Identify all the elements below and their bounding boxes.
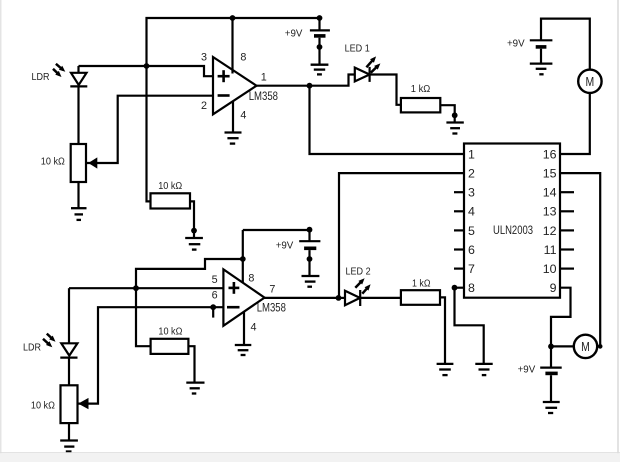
wire U2B pin8 row to battery B3 xyxy=(243,229,310,231)
wire output node to LED2 xyxy=(339,297,346,299)
U2B pin 4 wire to ground xyxy=(243,312,245,346)
svg-text:M: M xyxy=(586,75,595,89)
ground under R3 xyxy=(446,123,463,134)
wire M2 right to pin-15 line xyxy=(597,345,600,347)
svg-text:1: 1 xyxy=(468,147,475,161)
svg-text:+9V: +9V xyxy=(518,364,536,375)
LED2 emission arrows xyxy=(355,278,370,294)
ground under pin-8 wire xyxy=(475,364,492,375)
svg-text:5: 5 xyxy=(468,224,475,238)
wire node B to U2B pin 5 xyxy=(69,287,223,289)
motor M2 xyxy=(574,335,597,358)
junction M2 left node xyxy=(548,344,554,350)
battery B3 stem xyxy=(308,230,310,241)
svg-text:10 kΩ: 10 kΩ xyxy=(158,327,182,338)
wire top +9V rail to node A and down to R2 xyxy=(147,18,320,201)
battery B2 plates xyxy=(530,39,553,41)
U2 pin numbers right xyxy=(543,147,557,295)
svg-text:6: 6 xyxy=(468,243,475,257)
svg-text:8: 8 xyxy=(468,281,475,295)
svg-text:9: 9 xyxy=(550,281,557,295)
svg-text:13: 13 xyxy=(543,205,557,219)
svg-text:5: 5 xyxy=(212,274,218,286)
resistor R5 10k body xyxy=(151,339,189,354)
junction dot below B1 xyxy=(317,44,323,50)
svg-text:3: 3 xyxy=(201,52,207,64)
ground under R5 xyxy=(186,383,204,394)
svg-text:LDR: LDR xyxy=(32,72,50,83)
svg-text:1 kΩ: 1 kΩ xyxy=(411,84,431,95)
ground under U1A pin 4 xyxy=(225,133,242,144)
wire output node to LED1 (stepped) xyxy=(310,75,355,86)
svg-text:7: 7 xyxy=(468,262,475,276)
LDR1 light arrows xyxy=(53,64,65,77)
page left edge line xyxy=(0,0,2,462)
svg-text:+9V: +9V xyxy=(507,38,525,49)
LDR2 symbol xyxy=(60,343,77,357)
wire U2 pin 8 to ground (stepped) xyxy=(455,288,484,364)
junction at B3 top xyxy=(307,227,313,233)
svg-text:LDR: LDR xyxy=(23,342,41,353)
junction dot above R3 ground xyxy=(452,112,458,118)
junction at U2 pin 8 xyxy=(452,285,458,291)
svg-text:11: 11 xyxy=(544,243,557,257)
wire node to M2 xyxy=(551,345,574,347)
wire B3 row down to U2B pin 8 xyxy=(242,230,244,283)
wire R2 right to ground xyxy=(190,201,194,238)
wire LED2 cathode to R4 xyxy=(360,297,401,299)
svg-text:3: 3 xyxy=(468,186,475,200)
svg-text:15: 15 xyxy=(543,167,557,181)
LED2 symbol xyxy=(345,290,360,306)
wire B4 negative to ground xyxy=(550,375,552,402)
LDR2 light arrows xyxy=(43,334,56,348)
svg-text:7: 7 xyxy=(269,284,275,296)
svg-text:8: 8 xyxy=(248,273,254,285)
IC U2 ULN2003 body xyxy=(464,144,560,298)
ground under R2 xyxy=(185,238,203,250)
wire B3 negative to ground xyxy=(308,250,310,276)
wire U1A output to ULN2003 pin 1 xyxy=(310,86,465,154)
LDR1 symbol xyxy=(70,73,87,87)
U1A plus input mark xyxy=(218,70,230,82)
op-amp U1A LM358 body xyxy=(213,57,257,114)
wire LDR2 anode from node B row xyxy=(68,288,70,343)
svg-text:1: 1 xyxy=(261,72,267,84)
svg-text:14: 14 xyxy=(543,186,557,200)
wire R3 right to ground xyxy=(440,105,454,122)
wire M1 to ULN2003 pin 16 xyxy=(560,92,590,154)
svg-text:LM358: LM358 xyxy=(257,302,286,314)
battery B3 plates xyxy=(299,240,320,242)
U2 left pin stubs 3-8 xyxy=(454,192,464,288)
U1A minus input mark xyxy=(218,94,230,97)
U2 pin numbers left xyxy=(468,147,475,295)
U2B minus input mark xyxy=(227,306,240,309)
ground under B2 xyxy=(530,64,553,75)
junction on rail at U1A pin 8 branch xyxy=(230,15,236,21)
svg-text:8: 8 xyxy=(240,52,246,64)
battery B1 +9V stem xyxy=(318,18,320,30)
junction dot above R2 ground xyxy=(191,228,197,234)
ground under U2B pin 4 xyxy=(235,345,252,355)
U2 right pin stubs 14-10 xyxy=(560,192,574,268)
motor M1 xyxy=(578,70,601,93)
LED1 symbol xyxy=(355,67,370,82)
junction U1A output node xyxy=(307,83,313,89)
svg-text:10 kΩ: 10 kΩ xyxy=(31,401,55,412)
svg-text:4: 4 xyxy=(468,205,475,219)
wire U2B output pin 7 xyxy=(265,297,339,299)
svg-text:+9V: +9V xyxy=(285,29,303,40)
wire R4 right to ground xyxy=(440,297,445,364)
ground under R6 xyxy=(60,441,78,452)
node A junction (rail to pin3 row) xyxy=(144,63,150,69)
U1A pin 8 wire from rail xyxy=(231,18,233,74)
page bottom divider and footer strip xyxy=(0,452,620,453)
potentiometer R1 10k body xyxy=(71,144,86,182)
svg-text:2: 2 xyxy=(468,167,475,181)
wire LDR1 anode up to node row xyxy=(77,66,79,73)
svg-text:6: 6 xyxy=(212,290,218,302)
ground under R1 xyxy=(71,208,87,220)
battery B4 plates xyxy=(540,367,562,369)
ground under R4 xyxy=(437,364,454,375)
svg-text:ULN2003: ULN2003 xyxy=(493,223,533,237)
R6 wiper arrow to U2B pin 6 xyxy=(78,307,223,409)
stub below pin 6 junction xyxy=(212,307,214,317)
wire U1A output pin 1 xyxy=(257,85,310,87)
svg-text:1 kΩ: 1 kΩ xyxy=(412,278,431,289)
svg-text:12: 12 xyxy=(543,224,557,238)
svg-text:10: 10 xyxy=(543,262,557,276)
svg-text:4: 4 xyxy=(251,322,257,334)
wire LDR2 cathode to potentiometer R6 xyxy=(68,358,70,386)
wire node B down to R5 xyxy=(136,288,151,346)
junction U2B pin 8 node xyxy=(240,256,246,262)
svg-text:10 kΩ: 10 kΩ xyxy=(41,157,65,168)
wire R6 to ground xyxy=(68,423,70,440)
junction node B xyxy=(133,285,139,291)
LED1 emission arrows xyxy=(366,56,380,72)
wire node A to U1A pin 3 (stepped) xyxy=(79,66,214,76)
op-amp U2B LM358 body xyxy=(223,269,264,326)
svg-text:LED 2: LED 2 xyxy=(346,267,371,278)
svg-text:2: 2 xyxy=(201,100,207,112)
ground under B3 xyxy=(302,276,320,287)
R1 wiper arrow to U1A pin 2 xyxy=(87,96,214,169)
U1A pin 4 wire to ground xyxy=(232,101,234,133)
wire B1 negative to ground xyxy=(318,38,320,65)
svg-text:LM358: LM358 xyxy=(249,91,278,103)
ground under B1 xyxy=(311,65,329,75)
svg-text:10 kΩ: 10 kΩ xyxy=(158,181,182,192)
resistor R2 10k body xyxy=(151,193,191,208)
U2B plus input mark xyxy=(229,282,240,294)
wire B2 negative to ground xyxy=(540,49,542,64)
wire U2 pin 15 to motor M2 right xyxy=(560,173,600,346)
svg-text:4: 4 xyxy=(240,110,246,122)
svg-text:M: M xyxy=(581,340,590,354)
svg-text:LED 1: LED 1 xyxy=(345,44,370,55)
wire R1 to ground xyxy=(77,182,79,208)
junction dot on pin 6 wire xyxy=(210,304,216,310)
battery B1 plates xyxy=(310,29,330,31)
svg-text:16: 16 xyxy=(543,147,557,161)
page right edge line xyxy=(617,0,619,462)
wire R5 right to ground xyxy=(188,346,194,382)
resistor R3 1k body xyxy=(401,98,440,112)
battery B4 +9V stem xyxy=(550,346,552,367)
potentiometer R6 10k body xyxy=(61,385,78,423)
battery B2 +9V top right stem and top wire to motor M1 xyxy=(541,19,590,70)
terminal dot M2 right xyxy=(598,344,603,349)
resistor R4 1k body xyxy=(401,290,440,305)
ground under B4 xyxy=(543,402,560,413)
wire jog from pin8 node to node B (stepped) xyxy=(136,259,243,288)
junction U2B output node xyxy=(336,295,342,301)
junction dot below B3 xyxy=(307,256,313,262)
wire ULN2003 pin 2 to U2A output node xyxy=(339,173,464,298)
wire LDR1 cathode to potentiometer R1 xyxy=(77,86,79,144)
junction rail at battery B1 xyxy=(317,15,323,21)
svg-text:+9V: +9V xyxy=(276,241,294,252)
wire LED1 cathode to R3 (stepped) xyxy=(370,75,401,105)
wire U2 pin 9 to motor M2 left node (stepped) xyxy=(551,288,571,347)
